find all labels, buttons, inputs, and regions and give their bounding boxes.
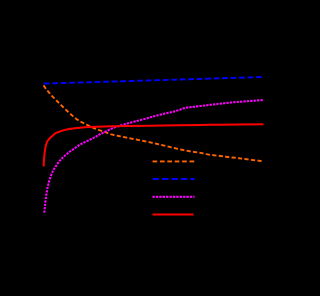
curve: magenta dotted (rising) (44, 100, 263, 213)
legend sample: red solid (153, 214, 194, 216)
legend sample: magenta dotted (153, 196, 195, 198)
curve: red solid (rising then flat) (44, 124, 264, 166)
legend sample: blue dashed (153, 178, 195, 180)
curve: orange dashed (decaying) (44, 85, 264, 161)
curve: blue dashed (flat top) (44, 77, 263, 84)
legend sample: orange dashed (153, 160, 195, 162)
